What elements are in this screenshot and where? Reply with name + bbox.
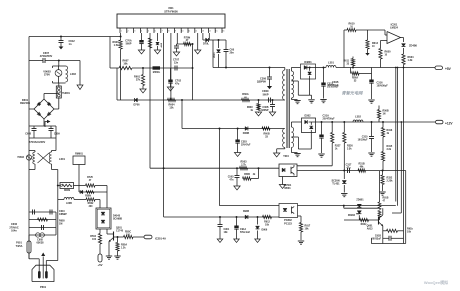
inductor L602 <box>66 66 68 82</box>
wire right AC column down <box>57 170 59 213</box>
svg-text:1.2k: 1.2k <box>121 248 126 250</box>
wire <box>42 257 44 279</box>
resistor R90J <box>360 218 369 221</box>
wire <box>272 107 274 113</box>
wire <box>331 143 333 166</box>
wire <box>371 68 373 80</box>
svg-text:270VAC/220V: 270VAC/220V <box>29 140 46 144</box>
wire <box>309 76 311 95</box>
svg-text:C609: C609 <box>54 133 60 136</box>
pin 7 <box>160 28 162 33</box>
wire <box>269 79 271 86</box>
svg-text:270V: 270V <box>44 73 50 77</box>
ground under R601 <box>140 89 146 93</box>
wire <box>298 240 304 242</box>
wire <box>218 224 223 226</box>
wire <box>368 99 374 101</box>
resistor R91B 47 <box>378 202 381 210</box>
wire <box>139 43 143 45</box>
wire <box>367 49 369 53</box>
wire <box>294 153 300 155</box>
svg-text:MX60L: MX60L <box>153 72 161 74</box>
wire <box>297 156 299 158</box>
junction <box>321 121 323 123</box>
junction <box>120 36 122 38</box>
wire <box>349 168 351 173</box>
svg-text:TH601: TH601 <box>62 91 70 95</box>
wire <box>401 37 404 39</box>
wire <box>213 67 285 69</box>
wire <box>299 242 303 244</box>
wire filter row 1 <box>29 125 56 127</box>
wire <box>74 199 86 201</box>
wire <box>284 99 286 101</box>
svg-text:1n: 1n <box>69 42 72 46</box>
junction <box>371 121 373 123</box>
wire <box>42 58 44 63</box>
svg-text:D706: D706 <box>134 104 141 107</box>
wire <box>157 33 159 41</box>
wire <box>108 258 110 260</box>
ground under C91A <box>234 239 240 243</box>
resistor R31B <box>381 152 384 162</box>
ground under C70N <box>173 52 179 56</box>
resistor R602 230 <box>86 198 95 201</box>
wire <box>269 68 271 78</box>
resistor R634 1.3k <box>402 54 405 65</box>
wire <box>224 49 229 51</box>
resistor R60A 68 <box>242 98 250 101</box>
svg-text:1M: 1M <box>59 223 62 226</box>
junction <box>343 121 345 123</box>
wire <box>284 67 286 69</box>
wire <box>57 212 59 261</box>
svg-text:10k: 10k <box>123 63 128 66</box>
wire <box>170 68 172 80</box>
svg-text:D70L: D70L <box>203 43 210 46</box>
wire <box>398 230 404 232</box>
wire <box>291 121 301 123</box>
pin 2 <box>126 28 128 33</box>
wire <box>291 67 300 69</box>
svg-text:C91B: C91B <box>375 234 381 237</box>
junction <box>258 99 260 101</box>
wire <box>107 257 111 259</box>
wire <box>371 122 373 137</box>
wire <box>55 212 57 235</box>
wire <box>113 232 115 241</box>
wire <box>270 106 275 108</box>
wire <box>403 68 405 244</box>
+5V rail <box>336 67 435 69</box>
wire <box>344 219 379 221</box>
wire <box>291 152 297 154</box>
wire <box>44 58 46 63</box>
plug outline <box>32 265 54 281</box>
ground under C702 <box>167 87 173 91</box>
wire block to thermistor <box>58 83 60 86</box>
wire <box>235 177 240 179</box>
wire <box>343 122 345 133</box>
wire <box>300 232 302 240</box>
svg-text:47u: 47u <box>347 166 352 169</box>
junction <box>403 67 405 69</box>
wire <box>51 210 53 215</box>
wire <box>164 216 279 218</box>
wire <box>268 98 270 103</box>
junction <box>142 67 144 69</box>
wire <box>298 94 311 96</box>
wire <box>41 225 43 230</box>
wire <box>382 122 384 128</box>
wire <box>358 215 360 220</box>
wire <box>379 217 381 220</box>
resistor R50C <box>124 235 134 238</box>
bridge rectifier D601 <box>34 99 54 119</box>
inductor L302 <box>353 120 363 122</box>
junction <box>218 39 220 41</box>
wire <box>343 206 345 209</box>
svg-text:R315: R315 <box>387 145 393 148</box>
wire <box>170 83 172 87</box>
wire <box>277 148 285 150</box>
svg-text:R316: R316 <box>387 129 393 132</box>
resistor R58N <box>86 191 94 194</box>
wire <box>117 237 119 243</box>
junction <box>237 128 239 130</box>
wire <box>290 68 292 72</box>
varistor Y0602 <box>26 155 31 160</box>
svg-text:SCH98B: SCH98B <box>113 219 122 221</box>
svg-text:+5V: +5V <box>97 263 102 267</box>
wire <box>343 185 345 193</box>
wire <box>58 66 60 70</box>
wire <box>267 78 272 80</box>
wire <box>218 54 220 68</box>
wire <box>291 80 298 82</box>
wire <box>392 237 404 239</box>
svg-text:ZD4B6: ZD4B6 <box>409 45 418 48</box>
svg-text:2.7k: 2.7k <box>241 163 246 166</box>
wire <box>380 59 382 68</box>
svg-text:Y0602: Y0602 <box>17 156 25 159</box>
wire <box>49 130 54 132</box>
wire <box>163 33 165 217</box>
junction <box>219 216 221 218</box>
wire <box>51 151 53 153</box>
junction <box>58 60 60 62</box>
wire <box>50 131 52 139</box>
wire to C607 <box>29 60 43 62</box>
wire <box>29 169 35 171</box>
wire thermistor to bridge right vertex <box>58 98 60 109</box>
svg-text:47u: 47u <box>175 83 180 86</box>
wire <box>142 86 144 90</box>
wire <box>45 261 47 272</box>
optocoupler PC501 <box>279 164 297 177</box>
svg-text:RBV406: RBV406 <box>20 101 30 105</box>
wire <box>321 85 325 87</box>
wire <box>400 122 402 213</box>
pin 16 <box>221 28 223 33</box>
wire <box>114 255 120 257</box>
wire <box>381 193 385 195</box>
wire <box>28 253 30 259</box>
svg-text:ZD902: ZD902 <box>348 214 356 217</box>
wire <box>34 210 36 215</box>
wire <box>367 30 369 40</box>
svg-text:L60B: L60B <box>66 202 72 205</box>
wire top rail from AC node to IC pin1 node <box>29 36 121 38</box>
wire <box>109 37 111 69</box>
wire row R605 <box>29 219 56 221</box>
svg-text:1N: 1N <box>383 114 386 116</box>
wire <box>321 138 323 153</box>
svg-text:20n: 20n <box>230 52 235 55</box>
wire <box>369 138 374 140</box>
resistor R60B 33 <box>262 127 270 130</box>
wire <box>347 168 349 173</box>
wire <box>132 67 193 69</box>
svg-text:C31A: C31A <box>323 115 330 118</box>
wire <box>344 29 347 31</box>
wire <box>50 126 52 129</box>
wire <box>298 215 302 217</box>
+12V output pad <box>436 120 444 124</box>
wire <box>34 151 36 153</box>
wire <box>117 251 119 256</box>
wire <box>95 199 100 201</box>
wire <box>270 98 272 103</box>
svg-text:WooQee模拟: WooQee模拟 <box>424 279 448 285</box>
wire bridge right vertex <box>54 108 59 110</box>
svg-text:10k: 10k <box>224 231 229 234</box>
wire left vertical AC line <box>28 37 30 259</box>
wire <box>95 185 107 187</box>
svg-text:C1740: C1740 <box>116 230 124 233</box>
svg-text:L302: L302 <box>355 116 361 119</box>
inductor L301 <box>326 66 336 68</box>
ground under C70A <box>138 50 144 54</box>
wire <box>293 174 295 176</box>
wire <box>106 186 108 209</box>
wire <box>32 210 34 215</box>
wire <box>300 216 302 223</box>
svg-text:R50B: R50B <box>244 174 250 176</box>
svg-text:R91B: R91B <box>383 198 389 200</box>
svg-text:TL431: TL431 <box>332 183 340 186</box>
wire <box>176 44 178 46</box>
wire <box>120 33 122 40</box>
svg-text:C8N9P: C8N9P <box>59 213 67 216</box>
wire <box>109 238 114 242</box>
T2 secondary winding <box>291 127 293 148</box>
wire <box>286 69 288 148</box>
wire <box>202 33 204 40</box>
junction <box>352 67 354 69</box>
wire <box>352 66 354 68</box>
svg-text:STR-F6656: STR-F6656 <box>164 9 178 13</box>
wire <box>108 242 110 257</box>
resistor R50B <box>243 177 252 180</box>
wire <box>52 150 57 152</box>
svg-text:10k: 10k <box>305 228 310 231</box>
wire <box>379 171 381 202</box>
wire <box>352 57 354 59</box>
ground under C30B <box>269 112 275 116</box>
wire <box>60 37 62 41</box>
junction <box>309 67 311 69</box>
svg-text:R58N: R58N <box>85 196 91 198</box>
svg-text:63K38: 63K38 <box>36 242 44 245</box>
wire <box>219 217 221 225</box>
svg-text:10k: 10k <box>407 231 412 234</box>
wire <box>397 68 399 206</box>
+5V output pad <box>435 66 443 70</box>
wire <box>236 217 238 226</box>
svg-text:T4/5A: T4/5A <box>16 245 23 248</box>
wire <box>258 112 260 113</box>
svg-text:R60N: R60N <box>64 189 70 192</box>
wire to snubber rail <box>212 40 214 68</box>
wire <box>343 171 345 180</box>
wire <box>170 33 172 100</box>
wire <box>390 236 392 241</box>
junction <box>343 205 345 207</box>
wire <box>382 226 384 244</box>
wire <box>44 93 59 95</box>
junction <box>236 167 238 169</box>
junction <box>192 43 194 45</box>
T1 primary winding <box>283 70 285 100</box>
wire <box>323 102 325 104</box>
resistor R503 2.7k <box>240 167 248 170</box>
svg-text:10k: 10k <box>265 224 270 227</box>
wire <box>29 258 39 260</box>
wire <box>107 233 114 235</box>
wire <box>343 143 345 171</box>
thermistor TH601 <box>56 86 61 98</box>
wire <box>323 86 325 99</box>
wire <box>310 100 314 102</box>
wire <box>52 81 54 83</box>
wire <box>208 33 210 40</box>
wire <box>320 155 324 157</box>
wire <box>382 185 384 192</box>
wire <box>225 52 227 68</box>
svg-text:50V2.2uF: 50V2.2uF <box>240 232 251 234</box>
zener ZD901 <box>357 204 361 207</box>
wire <box>297 165 332 167</box>
wire <box>311 102 313 104</box>
wire <box>382 208 384 215</box>
junction <box>382 170 384 172</box>
junction <box>219 128 221 130</box>
svg-text:R612: R612 <box>372 42 379 45</box>
wire <box>310 133 312 150</box>
svg-text:1.3k: 1.3k <box>408 59 413 62</box>
wire <box>316 67 327 69</box>
svg-text:27k: 27k <box>136 79 141 82</box>
junction <box>395 67 397 69</box>
resistor R605 1M <box>38 218 48 221</box>
wire <box>174 66 176 71</box>
wire <box>74 185 86 187</box>
wire <box>78 165 80 193</box>
pin 8 <box>167 28 169 33</box>
wire <box>342 194 346 196</box>
pad to IC201-4 <box>144 235 152 239</box>
wire <box>235 142 239 144</box>
wire <box>168 82 172 84</box>
wire <box>405 171 407 244</box>
junction <box>382 121 384 123</box>
wire <box>257 217 259 225</box>
pin 3 <box>133 28 135 33</box>
svg-text:R56B: R56B <box>383 110 389 113</box>
junction <box>400 121 402 123</box>
wire <box>371 155 373 157</box>
wire <box>219 227 221 240</box>
wire <box>371 83 373 99</box>
dual diode D302 <box>302 118 316 133</box>
wire <box>38 153 50 163</box>
wire <box>356 29 385 31</box>
wire <box>383 237 389 239</box>
wire <box>370 101 374 103</box>
wire <box>368 152 374 154</box>
svg-text:R327: R327 <box>335 145 341 148</box>
wire <box>116 68 118 100</box>
wire <box>384 30 386 35</box>
wire <box>33 131 35 139</box>
resistor R70B on pin 6 <box>148 38 151 48</box>
wire <box>99 200 101 209</box>
wire filter row 2 <box>29 137 56 139</box>
wire <box>55 126 57 138</box>
wire <box>385 34 387 36</box>
svg-text:4700/250V: 4700/250V <box>40 54 53 58</box>
junction <box>323 67 325 69</box>
wire <box>371 243 405 245</box>
wire <box>32 130 37 132</box>
wire <box>43 225 45 230</box>
wire <box>403 65 405 68</box>
wire bridge bottom vertex down <box>43 119 45 126</box>
optocoupler D4545 <box>96 208 111 229</box>
wire <box>225 40 227 50</box>
svg-text:A913: A913 <box>367 228 373 231</box>
svg-text:R611: R611 <box>343 60 349 63</box>
wire <box>224 51 229 53</box>
wire <box>57 72 61 75</box>
junction <box>269 67 271 69</box>
svg-text:R725: R725 <box>87 176 93 179</box>
svg-text:R326: R326 <box>347 145 353 148</box>
bead filter FB601 <box>60 183 74 189</box>
pin 5 <box>146 28 148 33</box>
wire <box>58 185 60 187</box>
pin 11 <box>187 28 189 33</box>
wire <box>59 40 64 42</box>
svg-text:1.5k: 1.5k <box>114 44 119 47</box>
svg-text:D302: D302 <box>305 115 312 118</box>
resistor R91C <box>378 211 381 218</box>
wire <box>403 38 405 43</box>
junction <box>225 67 227 69</box>
wire <box>53 65 66 67</box>
pin 9 <box>173 28 175 33</box>
